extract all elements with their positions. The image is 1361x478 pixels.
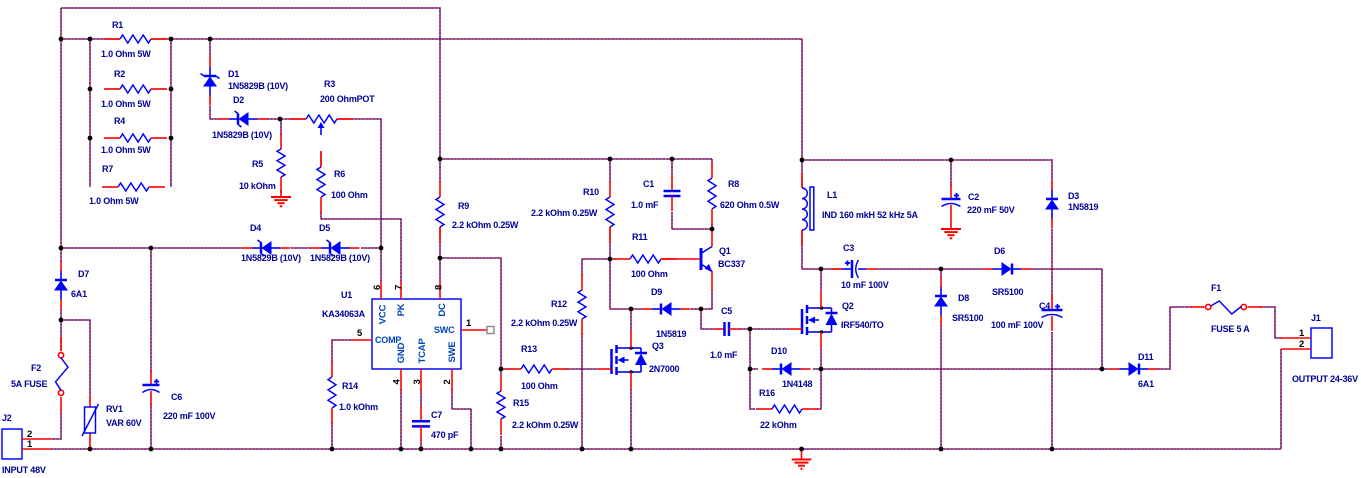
wire R15 lower bbox=[500, 369, 502, 449]
svg-text:F1: F1 bbox=[1211, 283, 1221, 293]
resistor R6 bbox=[317, 151, 368, 213]
svg-text:1N5829B (10V): 1N5829B (10V) bbox=[241, 253, 301, 263]
diode D7 bbox=[54, 261, 89, 310]
node D10 left / R16 left bbox=[748, 367, 753, 372]
svg-text:BC337: BC337 bbox=[718, 259, 745, 269]
wire top bus from battery node to pin-8 column bbox=[61, 8, 440, 159]
transistor Q2 IRF540 bbox=[788, 291, 884, 349]
node R9 top at y159 rail bbox=[438, 157, 443, 162]
diode D3 bbox=[1045, 180, 1099, 229]
svg-text:C2: C2 bbox=[968, 192, 979, 202]
wire C1 top lead bbox=[671, 159, 673, 178]
wire R9 column bbox=[439, 159, 441, 281]
wire D1 column bbox=[210, 39, 220, 119]
svg-text:R13: R13 bbox=[521, 344, 537, 354]
diode D6 bbox=[983, 246, 1032, 297]
svg-text:D3: D3 bbox=[1068, 191, 1079, 201]
svg-text:R4: R4 bbox=[114, 116, 125, 126]
wire R6 wiper column and pin7 bbox=[321, 152, 401, 281]
svg-text:1.0 Ohm 5W: 1.0 Ohm 5W bbox=[101, 49, 151, 59]
resistor R4 bbox=[101, 116, 167, 155]
svg-text:R3: R3 bbox=[324, 79, 335, 89]
svg-text:2.2 kOhm 0.25W: 2.2 kOhm 0.25W bbox=[511, 318, 578, 328]
wire output rail to D11 bbox=[821, 368, 1110, 370]
svg-text:C3: C3 bbox=[843, 243, 854, 253]
svg-text:100 Ohm: 100 Ohm bbox=[631, 269, 668, 279]
wire C5 node down to D10 node bbox=[749, 329, 751, 369]
svg-text:R2: R2 bbox=[114, 69, 125, 79]
svg-text:INPUT 48V: INPUT 48V bbox=[2, 465, 46, 475]
svg-text:RV1: RV1 bbox=[106, 404, 123, 414]
svg-text:COMP: COMP bbox=[375, 335, 401, 345]
svg-text:F2: F2 bbox=[31, 363, 41, 373]
svg-text:R15: R15 bbox=[513, 398, 529, 408]
svg-text:1.0 mF: 1.0 mF bbox=[631, 200, 659, 210]
svg-text:2.2 kOhm 0.25W: 2.2 kOhm 0.25W bbox=[512, 420, 579, 430]
wire y=159 row from R9 top to R8 bbox=[440, 158, 712, 160]
svg-text:1.0 Ohm 5W: 1.0 Ohm 5W bbox=[101, 99, 151, 109]
wire Q2 drain lead upper bbox=[820, 269, 822, 291]
svg-text:R9: R9 bbox=[458, 201, 469, 211]
svg-text:TCAP: TCAP bbox=[417, 338, 428, 364]
svg-text:100 Ohm: 100 Ohm bbox=[331, 190, 368, 200]
capacitor C7 bbox=[412, 406, 459, 441]
transistor Q3 2N7000 bbox=[598, 330, 680, 389]
node D1 anode at +48V row bbox=[208, 37, 213, 42]
transistor Q1 BC337 bbox=[662, 229, 745, 290]
junction R14 at ground bus bbox=[330, 447, 335, 452]
wire C1 bottom to Q1 collector node bbox=[672, 212, 712, 229]
wire J1 pin2 column bbox=[1280, 349, 1282, 449]
node R13/R15 junction bbox=[499, 367, 504, 372]
svg-text:R7: R7 bbox=[102, 164, 113, 174]
fuse F2 bbox=[11, 337, 68, 413]
svg-text:Q2: Q2 bbox=[842, 301, 854, 311]
wire C5 to Q2 gate bbox=[740, 328, 788, 330]
svg-text:5: 5 bbox=[357, 328, 363, 339]
node D2/R5/R3 junction bbox=[278, 117, 283, 122]
svg-text:D11: D11 bbox=[1138, 352, 1154, 362]
zener diode D4 bbox=[241, 223, 301, 263]
svg-text:VAR 60V: VAR 60V bbox=[106, 418, 142, 428]
svg-text:7: 7 bbox=[394, 285, 405, 290]
resistor R9 bbox=[436, 181, 519, 243]
svg-text:GND: GND bbox=[396, 342, 407, 363]
wire D4-D5 row bbox=[61, 247, 381, 249]
svg-text:R10: R10 bbox=[583, 187, 599, 197]
svg-text:VCC: VCC bbox=[378, 304, 389, 324]
wire RV1 branch bbox=[61, 320, 90, 395]
op-amp U1 KA34063A controller bbox=[322, 281, 494, 391]
wire main +48V row with R-bank rails bbox=[61, 39, 802, 188]
resistor R15 bbox=[497, 375, 579, 435]
resistor R7 bbox=[89, 164, 165, 206]
node R-bank left rail R4 bbox=[88, 136, 93, 141]
wire R10 node down to Q3 drain row bbox=[610, 259, 643, 309]
node C2 top bbox=[949, 158, 954, 163]
capacitor C5 bbox=[710, 306, 741, 360]
svg-text:OUTPUT 24-36V: OUTPUT 24-36V bbox=[1292, 374, 1358, 384]
wire D8 column to ground bus bbox=[940, 269, 942, 449]
svg-text:R16: R16 bbox=[759, 388, 775, 398]
node Q1 collector / C1 / R8 bbox=[710, 227, 715, 232]
zener diode D2 bbox=[212, 95, 272, 140]
connector J1 bbox=[1280, 313, 1358, 384]
node R-bank right rail top bbox=[169, 37, 174, 42]
node R9 bottom to pin8 bbox=[438, 256, 443, 261]
varistor RV1 bbox=[82, 395, 142, 449]
junction Q3 source at ground bus bbox=[629, 447, 634, 452]
svg-text:1: 1 bbox=[466, 318, 472, 329]
node D9 cathode-side / Q1 emitter bbox=[699, 307, 704, 312]
svg-text:1.0 mF: 1.0 mF bbox=[710, 350, 738, 360]
svg-text:2.2 kOhm 0.25W: 2.2 kOhm 0.25W bbox=[531, 208, 598, 218]
wire left input bus bbox=[51, 8, 61, 439]
resistor R5 bbox=[239, 133, 285, 193]
svg-text:D8: D8 bbox=[958, 293, 969, 303]
node Q2 drain / L1 / C3 bbox=[819, 267, 824, 272]
svg-text:D7: D7 bbox=[78, 269, 89, 279]
resistor R1 bbox=[101, 20, 167, 59]
wire D9 right to Q1 emitter node bbox=[691, 308, 701, 310]
svg-text:R6: R6 bbox=[334, 169, 345, 179]
svg-text:1N5819: 1N5819 bbox=[656, 329, 687, 339]
svg-text:D1: D1 bbox=[228, 69, 239, 79]
svg-text:SR5100: SR5100 bbox=[992, 287, 1024, 297]
ground symbol below R5 bbox=[271, 190, 291, 206]
zener diode D1 bbox=[201, 57, 289, 106]
node R-bank right rail R2 bbox=[169, 87, 174, 92]
capacitor C4 bbox=[991, 295, 1063, 331]
svg-text:D9: D9 bbox=[651, 287, 662, 297]
capacitor C1 bbox=[631, 176, 681, 211]
svg-text:FUSE 5 A: FUSE 5 A bbox=[1211, 324, 1250, 334]
wire R5 stem bbox=[280, 119, 282, 135]
svg-text:R12: R12 bbox=[551, 299, 567, 309]
node C3 / D8 / D6 junction bbox=[939, 267, 944, 272]
svg-text:C6: C6 bbox=[171, 392, 182, 402]
svg-text:D5: D5 bbox=[319, 223, 330, 233]
svg-text:1N5829B (10V): 1N5829B (10V) bbox=[212, 130, 272, 140]
wire D11 to F1 riser bbox=[1158, 307, 1192, 369]
svg-text:100 Ohm: 100 Ohm bbox=[521, 381, 558, 391]
svg-text:1N5829B (10V): 1N5829B (10V) bbox=[228, 81, 288, 91]
svg-text:R5: R5 bbox=[252, 159, 263, 169]
svg-text:D6: D6 bbox=[994, 246, 1005, 256]
wire R13 row to Q3 gate bbox=[501, 368, 598, 370]
junction R15 at ground bus bbox=[499, 447, 504, 452]
resistor R11 bbox=[614, 232, 677, 279]
capacitor C6 bbox=[143, 370, 216, 421]
wire R9 node to R13/R15 column bbox=[440, 258, 501, 369]
zener diode D5 bbox=[310, 223, 370, 263]
node battery+ / R1 row at left bus bbox=[59, 37, 64, 42]
node Q3 drain / D9 anode-side bbox=[629, 307, 634, 312]
inductor L1 bbox=[802, 173, 919, 245]
svg-text:22 kOhm: 22 kOhm bbox=[760, 420, 797, 430]
resistor R2 bbox=[101, 69, 167, 109]
svg-text:1N4148: 1N4148 bbox=[782, 379, 813, 389]
wire C6 lower bbox=[150, 403, 152, 449]
svg-text:U1: U1 bbox=[341, 290, 352, 300]
svg-text:10 kOhm: 10 kOhm bbox=[239, 181, 276, 191]
node Q2 source / D10 right / output rail bbox=[819, 367, 824, 372]
diode D8 bbox=[934, 277, 984, 326]
svg-text:C7: C7 bbox=[431, 410, 442, 420]
svg-text:KA34063A: KA34063A bbox=[322, 309, 366, 319]
wire U1 pin3 to C7 bbox=[420, 389, 422, 449]
svg-text:1.0 kOhm: 1.0 kOhm bbox=[339, 402, 378, 412]
wire U1 pin5 to R14 bbox=[332, 340, 351, 449]
wire R3 right to U1 pin6 column bbox=[337, 119, 381, 281]
svg-text:R11: R11 bbox=[632, 232, 648, 242]
svg-text:PK: PK bbox=[396, 303, 407, 316]
wire bottom ground bus bbox=[51, 448, 1281, 450]
svg-text:2.2 kOhm 0.25W: 2.2 kOhm 0.25W bbox=[452, 220, 519, 230]
svg-text:J1: J1 bbox=[1311, 313, 1321, 323]
svg-text:SR5100: SR5100 bbox=[952, 313, 984, 323]
wire F1 to J1 pin1 bbox=[1260, 307, 1282, 338]
resistor R14 bbox=[328, 361, 378, 424]
junction RV1 at ground bus bbox=[88, 447, 93, 452]
svg-text:620 Ohm 0.5W: 620 Ohm 0.5W bbox=[720, 200, 780, 210]
svg-text:2N7000: 2N7000 bbox=[649, 364, 680, 374]
resistor R13 bbox=[505, 344, 568, 391]
svg-text:C1: C1 bbox=[643, 179, 654, 189]
node R10/R11/R12 junction bbox=[608, 257, 613, 262]
wire D10 row bbox=[750, 368, 821, 370]
node R-bank right rail R4 bbox=[169, 136, 174, 141]
svg-text:R8: R8 bbox=[728, 179, 739, 189]
svg-text:D10: D10 bbox=[771, 346, 787, 356]
ground symbol on bottom bus bbox=[792, 449, 812, 469]
svg-text:IRF540/TO: IRF540/TO bbox=[841, 320, 884, 330]
svg-text:D2: D2 bbox=[233, 95, 244, 105]
svg-text:3: 3 bbox=[412, 379, 423, 384]
node R-bank left rail R2 bbox=[88, 87, 93, 92]
wire C2 column bbox=[950, 160, 952, 186]
wire R8 column bbox=[711, 159, 713, 229]
wire D2 to R3 row bbox=[267, 118, 306, 120]
svg-text:200 OhmPOT: 200 OhmPOT bbox=[320, 94, 375, 104]
junction ground symbol at bus bbox=[799, 447, 804, 452]
svg-text:220 mF 50V: 220 mF 50V bbox=[967, 205, 1015, 215]
wire C6 column bbox=[150, 248, 152, 372]
node L1 top / y160 branch bbox=[800, 158, 805, 163]
junction C4 at ground bus bbox=[1050, 447, 1055, 452]
svg-text:C4: C4 bbox=[1039, 301, 1050, 311]
wire Q3 drain up bbox=[630, 309, 632, 331]
svg-text:6A1: 6A1 bbox=[1138, 379, 1154, 389]
svg-text:8: 8 bbox=[434, 285, 445, 290]
diode D11 bbox=[1110, 352, 1159, 389]
junction C6 at ground bus bbox=[149, 447, 154, 452]
resistor R16 bbox=[756, 388, 818, 430]
wire Q1 emitter down-jog bbox=[701, 289, 712, 309]
node D4 row at left bus bbox=[59, 246, 64, 251]
junction R12 at ground bus bbox=[580, 447, 585, 452]
svg-text:L1: L1 bbox=[827, 190, 837, 200]
svg-text:SWC: SWC bbox=[434, 325, 455, 335]
fuse F1 bbox=[1190, 283, 1262, 334]
svg-text:IND 160 mkH 52 kHz 5A: IND 160 mkH 52 kHz 5A bbox=[822, 210, 919, 220]
svg-text:2: 2 bbox=[1299, 339, 1304, 350]
node D7 anode / RV1 branch bbox=[59, 318, 64, 323]
svg-text:1.0 Ohm 5W: 1.0 Ohm 5W bbox=[101, 145, 151, 155]
junction C7 at ground bus bbox=[419, 447, 424, 452]
potentiometer R3 bbox=[290, 79, 375, 135]
wire C3 right to D8/D6 node bbox=[876, 268, 983, 270]
diode D10 bbox=[762, 346, 813, 389]
node R10 top at y159 rail bbox=[608, 157, 613, 162]
wire R16 parallel loop bbox=[750, 369, 821, 409]
svg-text:R1: R1 bbox=[112, 20, 123, 30]
svg-text:Q3: Q3 bbox=[652, 341, 664, 351]
svg-text:1N5819: 1N5819 bbox=[1068, 202, 1099, 212]
node R-bank left rail top bbox=[88, 37, 93, 42]
wire D6 to output diode column bbox=[1031, 269, 1102, 369]
wire R10 node to R12 bbox=[582, 259, 616, 449]
svg-text:1N5829B (10V): 1N5829B (10V) bbox=[310, 253, 370, 263]
node D6 output to D11 bbox=[1100, 367, 1105, 372]
svg-text:2: 2 bbox=[442, 379, 453, 384]
connector J2 bbox=[2, 413, 51, 475]
wire U1 pin4 to ground bus bbox=[400, 389, 402, 449]
junction U1 pin4 at ground bus bbox=[399, 447, 404, 452]
resistor R8 bbox=[708, 162, 780, 225]
junction D8 at ground bus bbox=[939, 447, 944, 452]
wire Q3 source to ground bus bbox=[630, 389, 632, 449]
svg-text:100 mF 100V: 100 mF 100V bbox=[991, 320, 1044, 330]
resistor R10 bbox=[531, 181, 614, 243]
node C6 top junction bbox=[149, 246, 154, 251]
svg-text:D4: D4 bbox=[250, 223, 261, 233]
svg-text:470 pF: 470 pF bbox=[431, 430, 459, 440]
node D5 cathode to U1 pin6 bbox=[379, 246, 384, 251]
wire R10 column bbox=[609, 159, 611, 259]
svg-text:5A FUSE: 5A FUSE bbox=[11, 379, 47, 389]
wire Q2 source to output node bbox=[820, 349, 822, 369]
svg-text:220 mF 100V: 220 mF 100V bbox=[163, 411, 216, 421]
ground symbol below C2 bbox=[941, 229, 961, 238]
svg-text:1.0 Ohm 5W: 1.0 Ohm 5W bbox=[89, 196, 139, 206]
wire y=160 branch to C2 and D3 bbox=[802, 160, 1052, 449]
node C5 / Q2 gate junction bbox=[748, 327, 753, 332]
svg-text:C5: C5 bbox=[721, 306, 732, 316]
capacitor C2 bbox=[942, 184, 1015, 229]
svg-text:6A1: 6A1 bbox=[71, 289, 87, 299]
junction U1 pin2 at ground bus bbox=[469, 447, 474, 452]
wire Q1 emitter node to C5 bbox=[701, 309, 714, 329]
node C1 top at y159 rail bbox=[670, 157, 675, 162]
svg-text:J2: J2 bbox=[2, 413, 12, 423]
diode D9 bbox=[642, 287, 691, 339]
svg-text:10 mF 100V: 10 mF 100V bbox=[841, 280, 889, 290]
svg-text:Q1: Q1 bbox=[719, 246, 731, 256]
capacitor C3 bbox=[831, 243, 889, 290]
svg-text:DC: DC bbox=[437, 303, 448, 317]
svg-text:R14: R14 bbox=[342, 381, 358, 391]
wire L1 bottom to Q2 drain node and C3 bbox=[802, 230, 842, 269]
svg-text:6: 6 bbox=[372, 285, 383, 290]
wire U1 pin2 jog to ground bus bbox=[452, 389, 471, 449]
svg-text:SWE: SWE bbox=[447, 341, 458, 362]
resistor R12 bbox=[511, 274, 586, 335]
